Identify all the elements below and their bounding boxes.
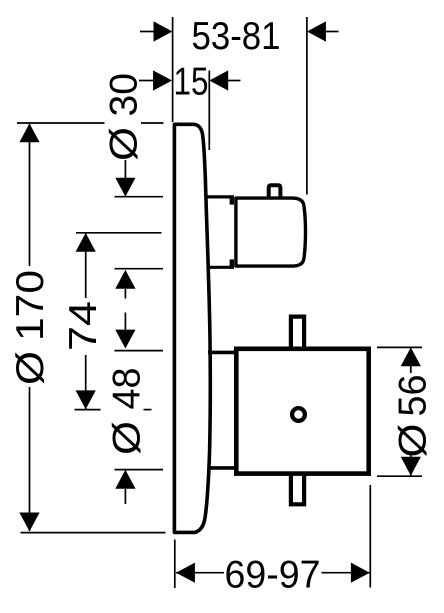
centerline big handle y409.6 right	[144, 409, 152, 411]
centerline big handle y409.6 left	[75, 409, 101, 411]
dimension Ø170 top arrow	[19, 123, 39, 142]
small handle lip bottom	[230, 259, 234, 267]
dimension 53-81 left arrow	[140, 31, 155, 33]
extension line bottom y532.6	[21, 532, 166, 534]
dimension 69-97 right arrow	[351, 563, 370, 583]
extension line top y123 right part	[141, 122, 164, 124]
dimension 74 line bottom	[85, 355, 87, 409]
big handle square body	[236, 349, 368, 474]
svg-text:170: 170	[9, 270, 52, 341]
svg-text:48: 48	[106, 368, 149, 410]
extension line small stem top y196.7	[115, 196, 164, 198]
dimension Ø170 bottom arrow	[19, 513, 39, 532]
svg-text:Ø: Ø	[392, 424, 435, 458]
extension line 15 right x209.3	[208, 71, 210, 151]
svg-text:15: 15	[174, 61, 209, 104]
dimension 74 top arrow	[76, 233, 96, 252]
big handle bottom tab	[291, 476, 304, 505]
dimension 15 right arrow	[227, 80, 241, 82]
svg-text:Ø: Ø	[106, 421, 149, 455]
svg-text:Ø: Ø	[103, 127, 146, 161]
extension line 53-81 right x306.9	[306, 17, 308, 195]
dimension 74 bottom arrow	[76, 390, 96, 409]
extension line big stem top y350.6	[115, 350, 164, 352]
dimension Ø30 up arrow below stem	[124, 289, 126, 299]
dimension Ø56 top arrow	[401, 347, 421, 366]
escutcheon plate (side profile)	[174, 124, 210, 532]
dimension 69-97 left arrow	[176, 563, 195, 583]
dimension Ø56 bottom arrow	[401, 457, 421, 476]
dimension Ø30 down arrow	[124, 160, 126, 179]
dimension Ø56 line top	[410, 347, 412, 373]
svg-text:53-81: 53-81	[192, 15, 281, 58]
extension line Ø56 bottom y476.2	[377, 475, 422, 477]
svg-text:30: 30	[103, 73, 146, 117]
svg-text:56: 56	[392, 375, 435, 417]
extension line 53-81 left x172.6	[172, 17, 174, 122]
dimension Ø48 down arrow above stem	[124, 313, 126, 332]
big handle stem top	[208, 351, 235, 355]
svg-text:74: 74	[62, 301, 105, 351]
extension line top y123 left part	[17, 122, 105, 124]
small handle stem bottom	[207, 266, 235, 269]
dimension 53-81 right arrow	[325, 31, 339, 33]
dimension Ø56 line bottom	[410, 455, 412, 476]
dimension 69-97 line right	[322, 572, 370, 574]
centerline small handle y232.8	[76, 232, 162, 234]
big handle top tab	[291, 317, 304, 347]
small handle body	[236, 198, 306, 266]
dimension 69-97 line left	[176, 572, 224, 574]
small handle lip top	[230, 197, 234, 205]
big handle stem bottom	[208, 466, 236, 470]
extension line small stem bottom y268.7	[115, 268, 164, 270]
svg-text:69-97: 69-97	[225, 554, 321, 597]
small handle stem top	[206, 195, 234, 198]
extension line 69-97 right x370.3	[369, 485, 371, 588]
dimension Ø170 line bottom	[29, 387, 31, 531]
extension line Ø56 top y347.4	[377, 346, 422, 348]
dimension 74 line top	[85, 233, 87, 298]
dimension 15 left arrow	[139, 80, 154, 82]
dimension Ø170 line top	[29, 123, 31, 266]
small handle top tab	[269, 185, 281, 197]
big handle center dot	[292, 408, 305, 421]
extension line 69-97 left x174.8	[174, 540, 176, 589]
dimension Ø48 up arrow below stem	[124, 489, 126, 504]
svg-text:Ø: Ø	[9, 351, 52, 385]
extension line big stem bottom y469.6	[115, 469, 164, 471]
